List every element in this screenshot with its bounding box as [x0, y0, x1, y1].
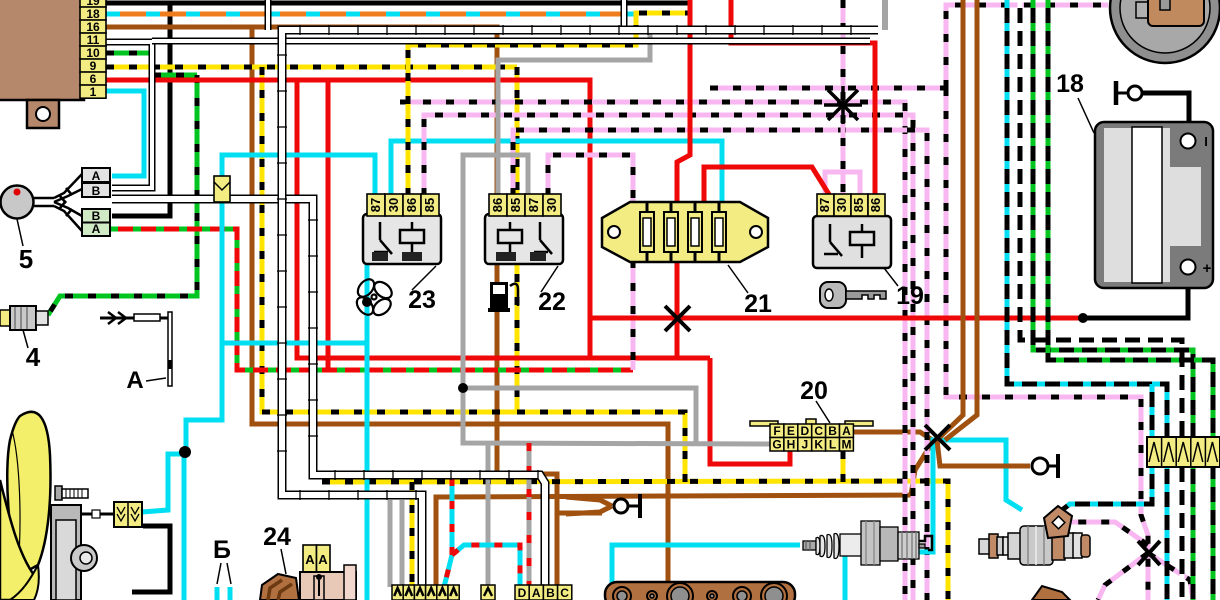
svg-text:86: 86 [404, 198, 419, 212]
svg-text:30: 30 [386, 198, 401, 212]
svg-text:A: A [305, 552, 315, 567]
svg-text:16: 16 [86, 20, 100, 34]
wire: red continues down from X to y=358 [675, 318, 680, 358]
probe A vertical thin line [168, 312, 172, 386]
partial injector bottom [1032, 586, 1070, 600]
svg-text:9: 9 [90, 59, 97, 73]
svg-text:L: L [829, 438, 836, 452]
svg-text:22: 22 [538, 288, 566, 316]
inline fuse symbol on cyan wire [214, 176, 230, 202]
wire: red top feed to fuse block [677, 0, 690, 206]
ring terminal brown right [1032, 458, 1048, 474]
item 18 voltage regulator [1095, 122, 1213, 288]
wire: yellow drop into connector 20 pin M [841, 451, 846, 482]
wire: orange/cyan from terminal 18 [106, 12, 634, 17]
fuel injector [979, 506, 1090, 565]
wire: cyan stub y=249 [367, 247, 400, 252]
wire: cyan branch y=343 to main vertical [222, 341, 367, 346]
resistor block [1147, 437, 1220, 467]
wire: shielded pair long top y=41 [152, 38, 870, 45]
svg-text:C: C [814, 424, 823, 438]
wire: cyan below inline fuse down jog to junction dot [186, 202, 222, 452]
item 24 connector [260, 574, 299, 600]
node: black junction dot y=388 [458, 383, 468, 393]
wire: black from item 18 plus terminal to red bus [1083, 272, 1188, 318]
sensor 5 body [1, 186, 34, 219]
wire: pink/black run y=102 [400, 102, 905, 600]
bus tick marks [277, 25, 851, 500]
svg-text:86: 86 [490, 198, 505, 212]
bottom connector D A B C [515, 585, 529, 600]
svg-text:85: 85 [508, 198, 523, 212]
relay 22 body [485, 214, 563, 264]
wire: black leads item 5 Y-split [34, 174, 82, 231]
svg-text:E: E [787, 424, 795, 438]
wire: black wire fan fuse to motor [132, 526, 170, 592]
wire: brown from X to ring terminal right [937, 440, 1030, 466]
svg-text:85: 85 [422, 198, 437, 212]
motor bolt with thread [55, 486, 62, 500]
wire: red from fuse lower pin to junction X y=318 [675, 260, 680, 318]
svg-text:G: G [772, 438, 781, 452]
wire: cyan main down from dot [182, 450, 187, 600]
wire: brown branch to ground fork [557, 511, 602, 516]
wire: red/cyan dashed into bottom connector cell 5 [444, 478, 452, 587]
wire: red bus y=318 to battery dot [590, 316, 1080, 321]
svg-text:6: 6 [90, 72, 97, 86]
svg-text:10: 10 [86, 46, 100, 60]
junction X pink lower right [1138, 541, 1160, 565]
wire: gray from shielded bus end top [882, 0, 888, 30]
connector 20 [750, 421, 778, 426]
wire: red drop x=297 to main bus y=358 [297, 80, 710, 358]
svg-text:I: I [1204, 134, 1208, 149]
wire: pink/black relay 23 pin 85 run y=115 [424, 115, 913, 600]
fan bottom left [7, 412, 50, 575]
wire: shielded top bus with ticks to bus2 and bottom connector [282, 30, 878, 585]
svg-text:J: J [801, 438, 808, 452]
wire: brown right bundle to junction X [940, 0, 963, 437]
svg-text:19: 19 [896, 282, 924, 310]
svg-text:20: 20 [800, 377, 828, 405]
svg-text:30: 30 [834, 198, 849, 212]
wire: cyan from inline fuse to relay 23 pin 87 [222, 155, 375, 196]
sensor 4 oxygen sensor [0, 310, 10, 326]
wire: gray pair into bottom connector [388, 500, 393, 587]
fan icon [354, 276, 395, 318]
node: cyan junction dot bottom left [179, 446, 191, 458]
probe capsule [134, 314, 160, 321]
svg-text:D: D [800, 424, 809, 438]
wire: pink/black star junction vertical to ignition relay pin 30 [841, 0, 846, 196]
svg-text:D: D [518, 586, 527, 600]
wire: gray from top bus down to relay 22 pin 86 [498, 33, 650, 196]
wire: cyan relay 23 pin 30 long run y=141 to fuse block 21 [391, 141, 722, 206]
fuel rail bottom [605, 582, 795, 600]
connector A gray item5 [82, 168, 110, 182]
wire: green down to sensor 4 [48, 75, 197, 315]
wire: red fuse to ignition pin 87 [704, 167, 830, 206]
wire: brown branch down at x=252 long run y=424 to fuel rail [252, 27, 668, 582]
wire: pink diagonal lower right [1148, 553, 1193, 600]
svg-text:A: A [126, 367, 143, 394]
svg-text:A: A [532, 586, 541, 600]
junction X red at x=677 [665, 306, 690, 331]
ignition relay 19 terminals [817, 194, 834, 216]
motor shaft to fuse [81, 513, 114, 516]
wire: cyan main vertical x=367 [365, 249, 370, 600]
svg-text:1: 1 [90, 85, 97, 99]
wire: cyan from terminal 1 to connector A of item 5 [106, 91, 144, 176]
wire: red drop x=328 to red/green bus y=370 [326, 80, 331, 370]
wire: yellow/black from terminal 9 [106, 65, 517, 70]
wire: black from terminal 19 [106, 1, 688, 6]
brown fork ground symbol left [566, 497, 612, 514]
junction star pink [824, 86, 862, 124]
wire: pink/black relay 22 pin 30 to fuse block pin y=155 [548, 155, 633, 206]
relay 23 terminals [367, 194, 385, 216]
wire: pink/black fuse lower pin to y=370 [631, 260, 636, 370]
wire: shielded vertical x=624 [621, 0, 628, 30]
node: junction dot red-black [1078, 313, 1088, 323]
wire: red/green dashed from sensor connector A [110, 229, 633, 370]
svg-text:F: F [773, 424, 780, 438]
svg-text:B: B [828, 424, 837, 438]
wire: gray with red dashes drop to connector DABC cell A [527, 443, 532, 587]
wire: gray U relay 22 pin 87 down x=463 then into connector 20 pin G [463, 155, 770, 444]
wire: red drop to connector 20 [710, 358, 790, 464]
node: cyan junction dot [362, 297, 372, 307]
wire: yellow feed relay 23 pin 86 up and right [408, 13, 688, 196]
wire: gray drop to centre single cell [486, 443, 491, 585]
wire: red top right to ignition pin 86 [731, 0, 875, 196]
junction X brown [925, 425, 950, 450]
svg-text:K: K [814, 438, 823, 452]
wire: gray upper rung y=388 [463, 388, 696, 443]
relay 22 terminals [489, 194, 507, 216]
svg-text:H: H [787, 438, 796, 452]
wire: black bundle x=1048 with green dashes [1048, 0, 1213, 600]
wire: brown from connector 20 pin A to junction X [853, 432, 937, 443]
svg-text:21: 21 [744, 290, 772, 318]
wire: yellow main down x=517 right and down to y=482 [517, 67, 685, 482]
ring terminal for item 18 [1128, 86, 1142, 100]
wire: black/cyan vertical bundle x=1007 right side [1007, 0, 1167, 600]
svg-text:Б: Б [213, 536, 231, 564]
wire: yellow branch x=262 down then y=412 long run [262, 67, 517, 412]
relay 23 body [363, 214, 441, 264]
svg-text:C: C [560, 586, 569, 600]
wire: black/cyan branch into resistor block top [1150, 384, 1155, 437]
ECU connector block (top left brown) [0, 0, 84, 100]
wire: pink/black right side down to resistor area [946, 88, 1148, 600]
svg-text:A: A [318, 552, 328, 567]
wire: pink jumper pins 87-85 of ignition relay 19 [825, 172, 860, 196]
wire: pink to injector connector [1070, 522, 1148, 545]
wire: black probe line A [100, 317, 168, 320]
spark plug [803, 521, 932, 565]
svg-text:87: 87 [817, 198, 832, 212]
wire: brown from terminal 16 down x=497 to ground fork [106, 27, 557, 587]
wire: shielded pair from item5 to bus1 and connector DABC [112, 199, 545, 585]
connector B green item5 [82, 209, 110, 223]
svg-text:B: B [92, 209, 101, 223]
wire: shielded pair terminal 11 to item 5 connector B [106, 42, 152, 188]
fan fuse yellow [114, 502, 142, 527]
wire: pink/black relay 22 pin 85 run y=130 [513, 130, 927, 600]
fan motor drum [51, 505, 81, 600]
wire: shielded vertical x=268 [265, 0, 272, 30]
ECU terminal strip [80, 0, 106, 7]
fuse block 21 [602, 202, 768, 262]
wire: cyan spark plug lead [612, 545, 800, 600]
svg-text:A: A [92, 222, 101, 236]
svg-text:87: 87 [368, 198, 383, 212]
svg-text:86: 86 [868, 198, 883, 212]
svg-text:B: B [546, 586, 555, 600]
ignition relay 19 body [813, 216, 891, 268]
svg-text:A: A [92, 169, 101, 183]
wire: green/black from terminal 10 step down [106, 53, 197, 75]
svg-text:11: 11 [87, 33, 100, 47]
svg-text:18: 18 [1056, 70, 1084, 98]
wire: pink/black top right to distributor [946, 5, 1108, 88]
wire: black/white shielded bundle x=1020 [1020, 0, 1182, 600]
svg-text:30: 30 [544, 198, 559, 212]
svg-text:B: B [92, 184, 101, 198]
svg-text:M: M [842, 438, 852, 452]
bottom single cell [481, 585, 495, 600]
wire: black/green bundle x=1033 [1033, 0, 1193, 600]
wire: pink diagonal lower left from X2 [1098, 553, 1148, 600]
item below A A [300, 572, 356, 600]
bottom connector group 1 [392, 585, 403, 600]
wire: black vertical to item 5 connector B [112, 3, 170, 216]
connector A green item5 [82, 223, 110, 237]
svg-text:18: 18 [86, 7, 100, 21]
svg-text:85: 85 [851, 198, 866, 212]
wire: yellow lower run y=482 to right then down [322, 481, 948, 600]
A A connector cells [303, 545, 317, 572]
connector B gray item5 [82, 183, 110, 197]
distributor top right [1110, 0, 1220, 63]
svg-text:5: 5 [19, 244, 33, 274]
wire: red/cyan bridge into connector DABC cell D [452, 545, 520, 587]
wire: black/cyan resistor to injector [1058, 466, 1152, 513]
svg-text:A: A [842, 424, 851, 438]
wire: black item 18 top terminal to ring terminal [1142, 93, 1189, 135]
wire: pink/black run y=88 to right side [710, 86, 946, 91]
svg-text:24: 24 [263, 523, 291, 551]
fuel pump icon [488, 282, 518, 312]
wire: cyan bottom right loop [845, 440, 1022, 600]
wire: cyan branch to fan fuse [142, 454, 186, 512]
svg-text:+: + [1203, 260, 1212, 277]
wire: red from terminal 6 turn down x=590 [106, 80, 590, 358]
svg-text:87: 87 [526, 198, 541, 212]
key icon [820, 282, 886, 308]
wire: brown long run y=496 to junction X [436, 443, 932, 588]
wire: yellow branch into bottom connector cell 2 [410, 482, 415, 587]
